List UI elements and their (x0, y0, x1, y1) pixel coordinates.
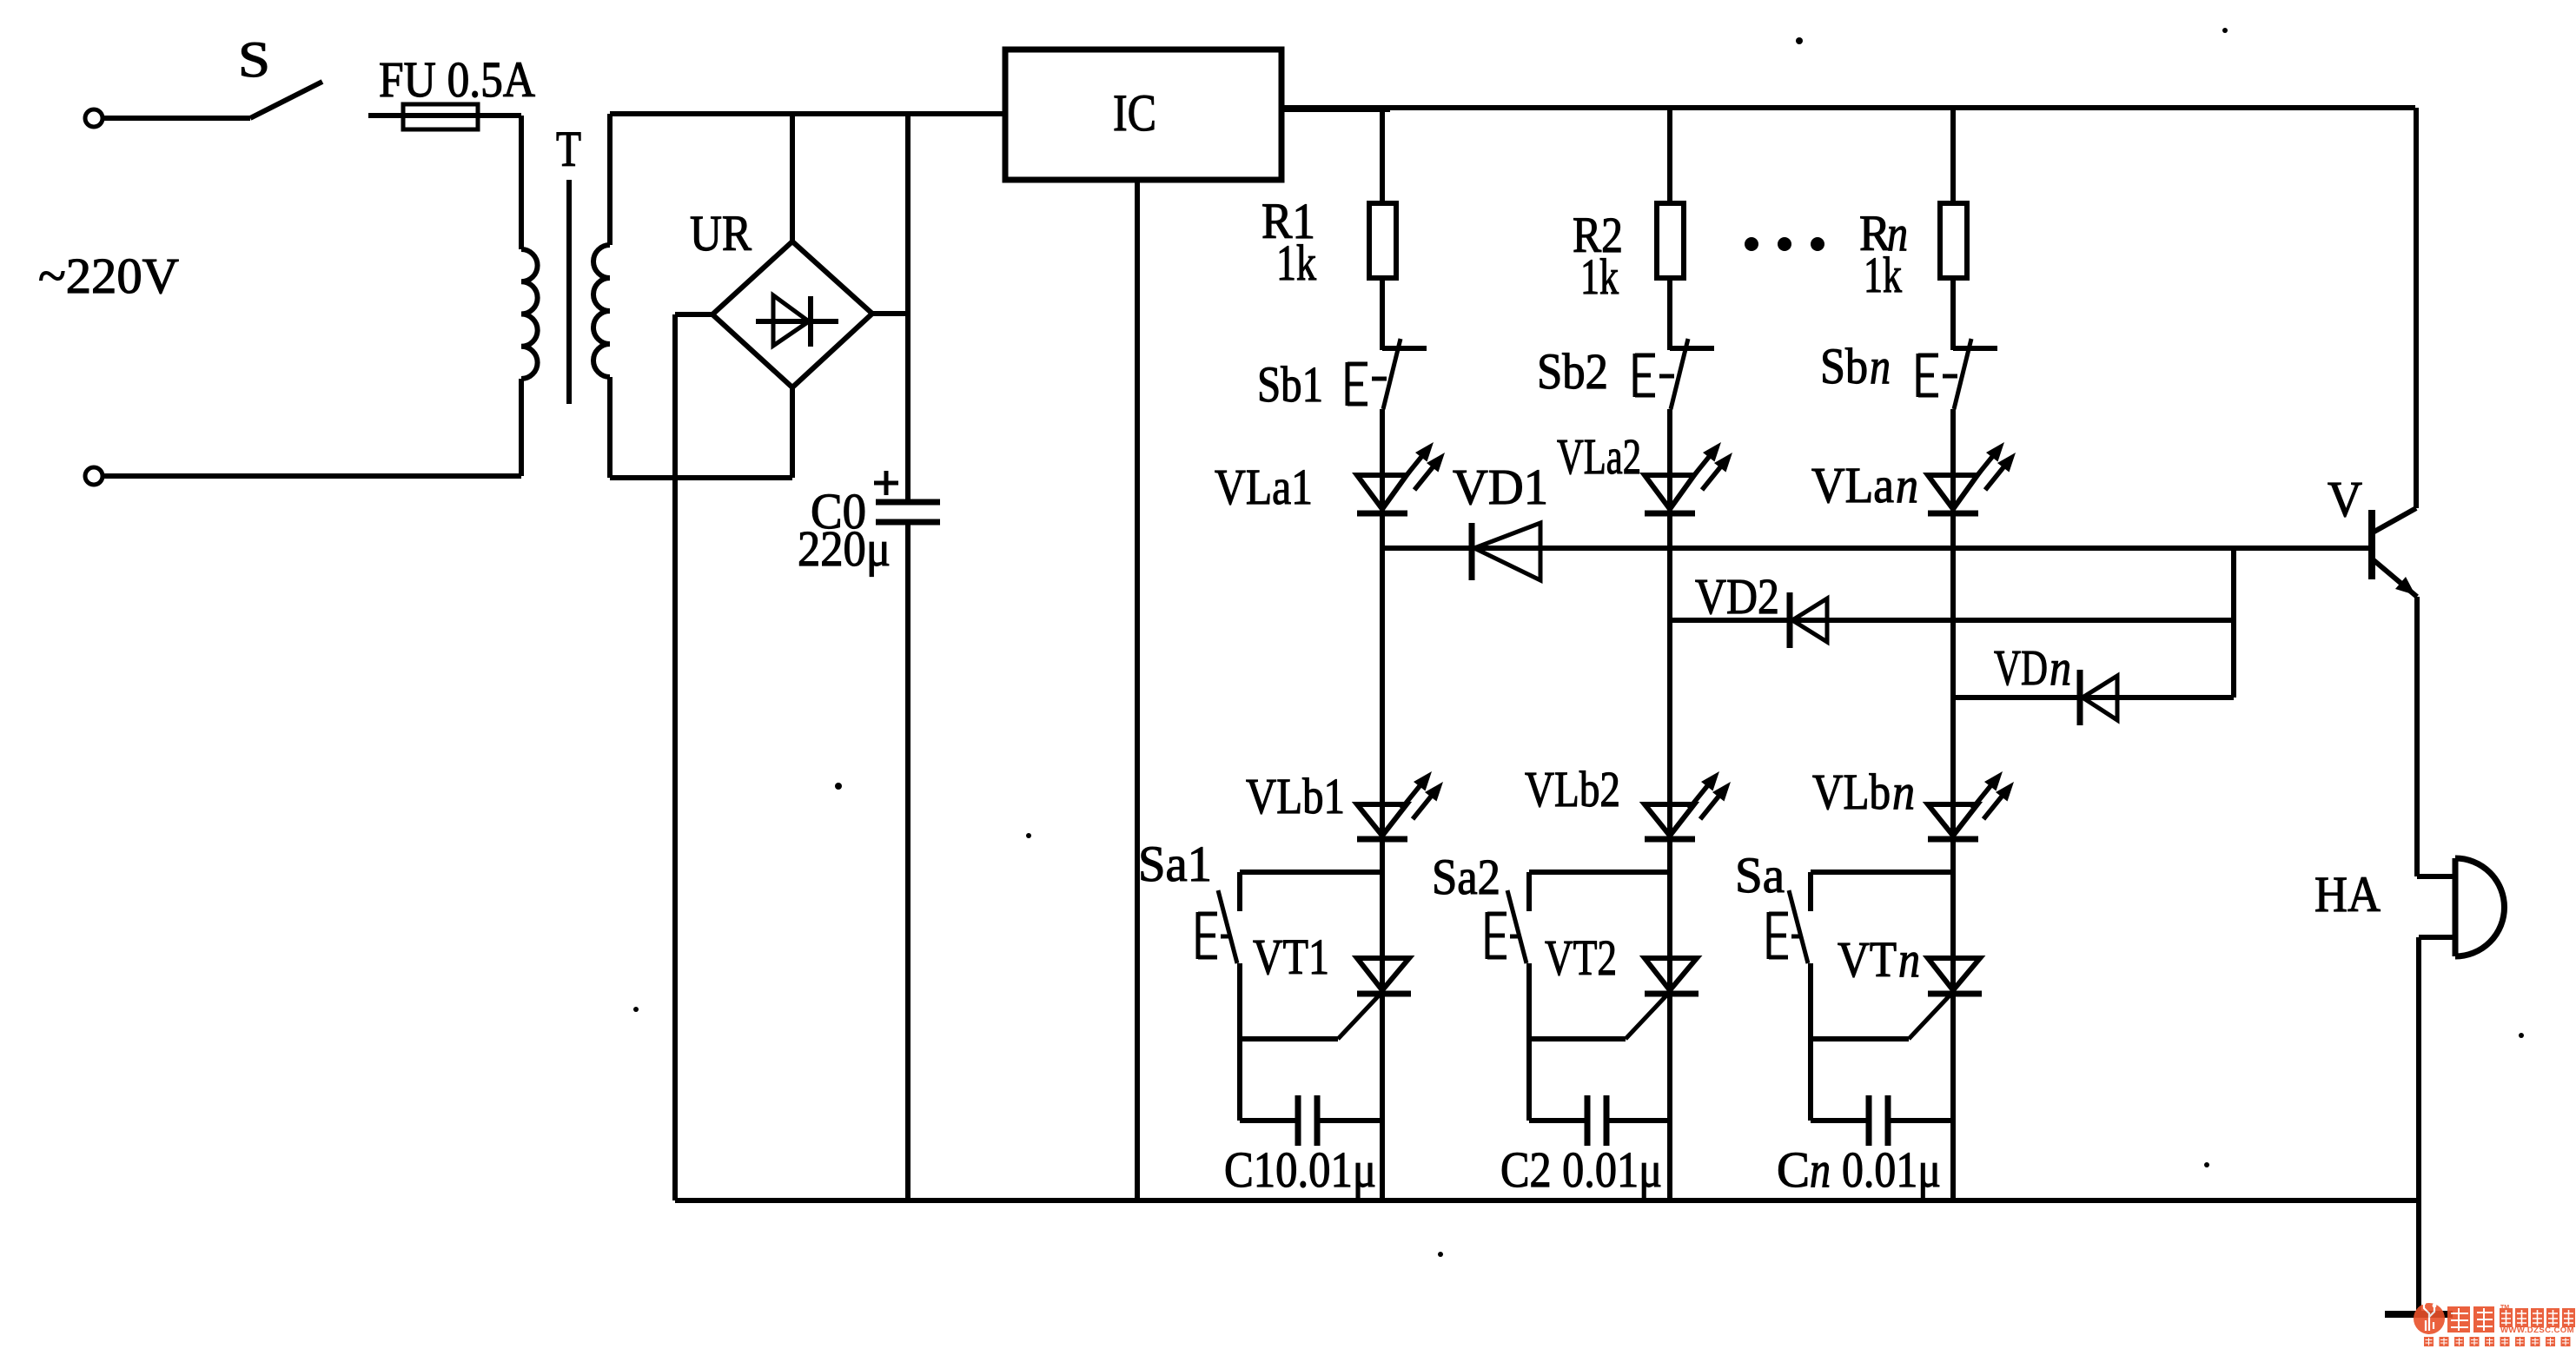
svg-text:VLb1: VLb1 (1246, 768, 1345, 824)
svg-text:IC: IC (1113, 84, 1156, 142)
svg-text:VD2: VD2 (1695, 568, 1779, 625)
svg-text:n: n (1898, 931, 1920, 988)
svg-text:Sb: Sb (1820, 338, 1868, 394)
svg-text:VLb2: VLb2 (1525, 761, 1620, 817)
svg-text:n: n (1892, 764, 1915, 820)
svg-text:VLb: VLb (1812, 764, 1891, 820)
svg-text:VLa1: VLa1 (1215, 459, 1313, 515)
svg-text:C10.01μ: C10.01μ (1224, 1141, 1376, 1198)
svg-text:1k: 1k (1580, 248, 1619, 305)
svg-text:V: V (2328, 471, 2362, 527)
svg-text:1k: 1k (1276, 235, 1316, 291)
svg-text:Sa: Sa (1735, 847, 1785, 903)
svg-text:T: T (556, 121, 581, 177)
svg-text:Sa2: Sa2 (1432, 849, 1500, 905)
svg-text:VD: VD (1994, 639, 2048, 696)
svg-text:S: S (238, 31, 270, 88)
svg-text:VLa: VLa (1811, 457, 1894, 513)
svg-text:1k: 1k (1864, 247, 1902, 303)
svg-text:n: n (1810, 1141, 1831, 1198)
svg-text:Sa1: Sa1 (1138, 836, 1212, 892)
svg-text:0.01μ: 0.01μ (1842, 1141, 1941, 1198)
svg-text:VT1: VT1 (1253, 929, 1329, 985)
svg-text:TM: TM (2500, 1305, 2509, 1311)
svg-text:n: n (1896, 457, 1918, 513)
svg-text:220μ: 220μ (798, 520, 891, 577)
svg-text:FU 0.5A: FU 0.5A (379, 51, 535, 108)
svg-text:UR: UR (690, 205, 752, 261)
svg-text:WWW.DZSC.COM: WWW.DZSC.COM (2500, 1326, 2574, 1335)
svg-text:VT2: VT2 (1545, 929, 1617, 986)
svg-text:C2 0.01μ: C2 0.01μ (1500, 1141, 1662, 1198)
svg-text:C: C (1777, 1141, 1810, 1198)
svg-text:n: n (2050, 639, 2071, 696)
svg-text:VD1: VD1 (1453, 459, 1548, 515)
svg-text:n: n (1870, 338, 1891, 394)
svg-text:Sb2: Sb2 (1537, 343, 1608, 400)
svg-text:VLa2: VLa2 (1557, 428, 1641, 485)
svg-text:~220V: ~220V (38, 248, 179, 304)
svg-text:Sb1: Sb1 (1257, 356, 1323, 413)
svg-text:HA: HA (2314, 866, 2381, 922)
svg-text:VT: VT (1838, 931, 1897, 988)
